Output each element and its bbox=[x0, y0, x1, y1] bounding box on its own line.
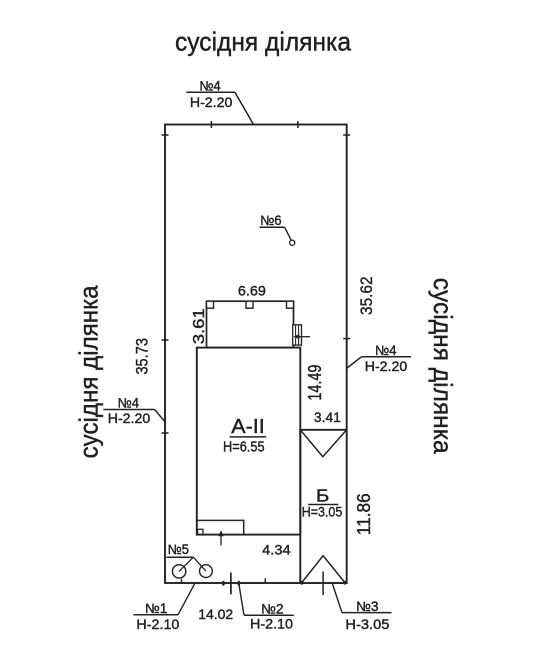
boundary tick right-2 bbox=[343, 338, 350, 340]
label point 3 bbox=[332, 583, 391, 632]
svg-text:14.49: 14.49 bbox=[305, 365, 325, 401]
svg-text:№6: №6 bbox=[260, 213, 282, 228]
label point 6 bbox=[260, 213, 292, 240]
gate tick bbox=[322, 571, 324, 595]
building A-II inner step line bbox=[197, 520, 244, 534]
porch outline bbox=[207, 301, 294, 347]
leader to tree right bbox=[193, 557, 206, 571]
svg-text:№2: №2 bbox=[261, 601, 284, 616]
label point 4 right bbox=[346, 343, 411, 374]
side steps inner line 1 bbox=[295, 325, 297, 345]
porch column mark right bbox=[287, 301, 294, 308]
svg-text:14.02: 14.02 bbox=[198, 606, 233, 622]
label point 5 bbox=[167, 542, 194, 557]
svg-text:6.69: 6.69 bbox=[238, 283, 266, 299]
svg-text:Н=3.05: Н=3.05 bbox=[302, 503, 343, 519]
structure B top edge bbox=[299, 429, 346, 431]
entrance arrow up bbox=[220, 533, 222, 546]
structure B upper gable (down triangle) bbox=[300, 430, 346, 457]
boundary tick right-1 bbox=[343, 134, 350, 136]
side steps block bbox=[293, 325, 302, 345]
porch column mark left bbox=[207, 301, 214, 308]
structure B label bbox=[302, 486, 343, 520]
entrance arrow left bbox=[296, 336, 310, 338]
building A-II outline bbox=[197, 348, 300, 535]
svg-text:3.41: 3.41 bbox=[314, 409, 341, 425]
boundary tick left-3 bbox=[162, 432, 169, 434]
svg-text:Н-3.05: Н-3.05 bbox=[345, 617, 389, 632]
svg-text:4.34: 4.34 bbox=[262, 542, 291, 558]
svg-text:Н-2.20: Н-2.20 bbox=[365, 359, 408, 374]
survey point 6 circle bbox=[290, 240, 295, 245]
svg-text:А-ІІ: А-ІІ bbox=[231, 415, 265, 438]
bottom tall tick bbox=[230, 573, 232, 595]
svg-text:№5: №5 bbox=[167, 542, 189, 557]
plot boundary bbox=[165, 125, 347, 584]
svg-text:H=6.55: H=6.55 bbox=[223, 439, 265, 455]
svg-text:сусідня ділянка: сусідня ділянка bbox=[428, 278, 458, 455]
svg-text:Н-2.10: Н-2.10 bbox=[136, 617, 179, 632]
lower gable corner dot right bbox=[343, 581, 347, 585]
structure B lower gable (up triangle) bbox=[302, 556, 346, 583]
svg-text:3.61: 3.61 bbox=[191, 308, 208, 344]
boundary tick left-2 bbox=[162, 339, 169, 341]
svg-text:Н-2.10: Н-2.10 bbox=[250, 617, 293, 632]
side steps inner line 2 bbox=[298, 325, 300, 345]
label point 2 bbox=[239, 583, 294, 631]
lower gable corner dot left bbox=[300, 581, 304, 585]
porch column mark middle bbox=[246, 301, 253, 308]
boundary tick top-1 bbox=[210, 121, 212, 128]
svg-text:сусідня ділянка: сусідня ділянка bbox=[175, 27, 352, 57]
label point 4 left bbox=[103, 395, 164, 426]
structure B left edge bbox=[299, 430, 301, 583]
boundary tick left-1 bbox=[162, 134, 169, 136]
svg-text:№4: №4 bbox=[199, 78, 221, 93]
label point 1 bbox=[133, 583, 194, 632]
svg-text:№3: №3 bbox=[356, 599, 379, 614]
bottom tick small 2 bbox=[264, 578, 266, 583]
boundary tick top-2 bbox=[297, 121, 299, 128]
svg-text:35.62: 35.62 bbox=[357, 276, 376, 315]
label point 4 top bbox=[186, 78, 253, 124]
svg-text:№4: №4 bbox=[118, 395, 140, 410]
bottom dot 1 bbox=[222, 581, 225, 586]
svg-text:№4: №4 bbox=[375, 343, 397, 358]
svg-text:11.86: 11.86 bbox=[354, 493, 374, 535]
svg-text:35.73: 35.73 bbox=[132, 338, 151, 375]
leader to tree left bbox=[179, 557, 193, 571]
svg-text:сусідня ділянка: сусідня ділянка bbox=[74, 285, 104, 458]
building A-II corner square bbox=[198, 529, 203, 534]
tree circle left bbox=[172, 565, 185, 578]
svg-text:Н-2.20: Н-2.20 bbox=[190, 95, 233, 110]
building A-II label bbox=[223, 415, 266, 455]
svg-text:Н-2.20: Н-2.20 bbox=[108, 411, 151, 426]
bottom tick small 1 bbox=[181, 579, 183, 584]
bottom dot 2 bbox=[237, 581, 240, 586]
tree circle right bbox=[200, 565, 213, 578]
svg-text:№1: №1 bbox=[145, 601, 168, 616]
